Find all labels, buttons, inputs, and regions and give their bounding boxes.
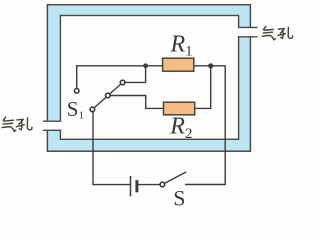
S1 middle contact bbox=[106, 93, 111, 98]
battery plate long bbox=[130, 176, 132, 196]
wire: middle contact to R2 left bbox=[108, 96, 164, 109]
air hole cut line right upper bbox=[238, 26, 258, 28]
battery plate short bbox=[135, 180, 138, 192]
air hole cut line left lower bbox=[43, 129, 62, 131]
label qikong left: char kong bbox=[16, 118, 32, 130]
junction dot at R1 right bbox=[208, 63, 213, 68]
wire: S1 pole down to battery bbox=[93, 112, 131, 185]
junction dot at top node bbox=[143, 63, 148, 68]
air hole gap left wall bbox=[46, 122, 63, 130]
S1 left contact bbox=[74, 89, 79, 94]
box wall inner outline bbox=[60, 16, 238, 140]
wire: battery to switch S bbox=[137, 184, 160, 186]
box wall outer outline bbox=[47, 5, 250, 152]
label qikong left: char qi bbox=[2, 117, 16, 131]
box wall (blue band) bbox=[47, 5, 250, 152]
wire: upper contact to top node bbox=[123, 66, 146, 83]
svg-text:S: S bbox=[173, 185, 185, 207]
S1 pole contact bbox=[90, 107, 95, 112]
wire: top node to R1 bbox=[77, 66, 163, 89]
air hole cut line left upper bbox=[43, 120, 62, 122]
air hole gap right wall bbox=[238, 28, 253, 36]
wire: R1 right, right branch down to bottom circuit bbox=[185, 66, 225, 185]
S1 upper contact bbox=[120, 80, 125, 85]
switch S lever bbox=[165, 172, 187, 183]
switch S contact circle bbox=[160, 182, 165, 187]
label qikong right: char qi bbox=[262, 27, 275, 40]
label qikong right: char kong bbox=[278, 27, 293, 38]
resistor R1 bbox=[163, 58, 194, 71]
air hole cut line right lower bbox=[238, 36, 258, 38]
switch S1 lever bbox=[92, 83, 122, 110]
resistor R2 bbox=[164, 102, 195, 115]
wire: junction to R2 right bbox=[195, 66, 211, 109]
